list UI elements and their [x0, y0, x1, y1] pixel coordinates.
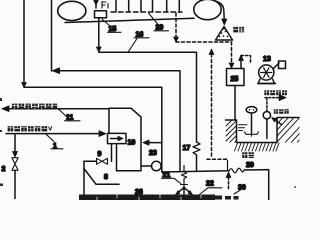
svg-text:20: 20 — [246, 162, 254, 169]
raw gas line 1 — [6, 133, 100, 135]
gas inlet duct 10 — [108, 133, 127, 143]
gypsum discharge arrow — [216, 1, 225, 19]
svg-text:25: 25 — [231, 76, 239, 83]
脱硫后净烟气 text — [12, 104, 57, 109]
label 16 leader — [129, 39, 138, 52]
gypsum pile triangle — [216, 27, 233, 41]
vacuum box teeth on belt — [116, 0, 179, 13]
valve 2 — [12, 158, 18, 171]
pit agitator motor — [246, 107, 257, 113]
control valve 20 — [229, 168, 244, 173]
stub and downpipe from 15 — [98, 18, 100, 47]
地坑泵 text — [274, 109, 289, 114]
svg-text:17: 17 — [183, 145, 191, 152]
dashed line to hopper 25 — [176, 41, 232, 43]
box 25 — [227, 69, 245, 86]
chute 8 — [83, 161, 85, 196]
未脱硫原烟气 text — [8, 126, 48, 131]
label 29 leader — [149, 13, 159, 25]
svg-text:9: 9 — [98, 151, 102, 158]
bottom header line to pit wall — [162, 171, 229, 172]
bypass branch with valve 2 — [14, 134, 16, 152]
svg-text:2: 2 — [2, 166, 6, 173]
slurry pump circle — [141, 165, 152, 167]
pit hatching left — [226, 114, 238, 151]
dashed drop into box 25 — [231, 42, 233, 62]
去脱硫塔 text — [264, 90, 287, 95]
dashed line 30 with up arrow — [226, 172, 231, 178]
speckles — [0, 98, 296, 188]
Fi instrument marks — [102, 2, 108, 9]
trough 26 slurry band — [79, 195, 239, 201]
label 15 leader — [102, 19, 111, 27]
pipe from valve 9 to chute — [84, 160, 97, 162]
agitator 21 in trough — [181, 166, 186, 189]
svg-text:23: 23 — [149, 150, 157, 157]
duct C from far-left vertical — [23, 0, 25, 82]
return branch 23 into tower — [148, 142, 162, 144]
pit agitator shaft — [251, 113, 253, 133]
conveyor left roller — [58, 1, 86, 20]
pump discharge dashed to tower — [266, 99, 268, 112]
duct B from left vertical — [51, 0, 53, 71]
svg-text:8: 8 — [104, 174, 108, 181]
dashed return line with up arrow — [209, 49, 214, 55]
pit pump — [263, 112, 270, 119]
duct 16 run (A) — [99, 52, 197, 142]
svg-text:10: 10 — [128, 140, 136, 147]
label 1 leader — [46, 134, 54, 141]
石膏 text — [233, 27, 244, 33]
pit structure — [226, 118, 300, 143]
dashed gypsum line down from belt — [175, 13, 177, 37]
pit hatching right — [277, 102, 313, 147]
fan 13 — [259, 65, 274, 80]
dashed vacuum line 29 — [111, 11, 182, 13]
地坑 text — [242, 152, 254, 158]
svg-text:13: 13 — [263, 56, 271, 63]
drain from box 25 to pit — [234, 86, 236, 120]
arrowhead down into duct 16 — [96, 47, 101, 52]
pit hatching bottom — [235, 143, 280, 151]
fan outlet flag — [274, 63, 280, 69]
valve/feeder on box 15 — [95, 0, 97, 5]
svg-text:22: 22 — [206, 181, 214, 188]
absorber tower — [109, 108, 141, 171]
belt bottom line — [65, 18, 194, 22]
clean gas line 11 — [8, 108, 109, 110]
valve 9 — [97, 158, 108, 164]
slurry level marks — [239, 125, 248, 131]
dashed vent to fan — [241, 56, 251, 64]
vent from box 25 up arrow — [240, 60, 242, 69]
drain riser to valve 9 — [111, 144, 113, 162]
conveyor right roller — [194, 0, 221, 20]
label 11 leader — [59, 110, 67, 118]
box 15 — [95, 11, 107, 18]
